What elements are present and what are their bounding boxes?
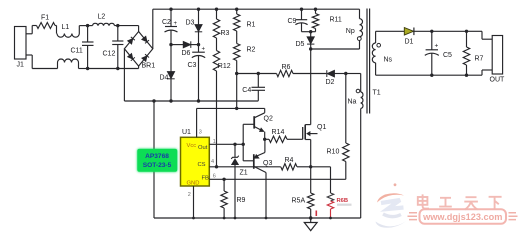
svg-text:L1: L1 bbox=[62, 24, 70, 31]
wire drain line bbox=[310, 49, 312, 125]
node C4 top bbox=[257, 72, 260, 75]
diode D3 bbox=[198, 9, 200, 24]
wire FB line bbox=[209, 178, 345, 180]
svg-text:4: 4 bbox=[211, 159, 214, 165]
node A junction bbox=[86, 24, 89, 27]
svg-text:R5A: R5A bbox=[292, 198, 306, 205]
svg-text:Vcc: Vcc bbox=[187, 143, 197, 149]
svg-text:Z1: Z1 bbox=[240, 170, 248, 177]
wire node A to L2 bbox=[88, 25, 93, 27]
node current sense bbox=[309, 165, 312, 168]
inductor L1 bottom winding bbox=[32, 68, 57, 70]
transformer auxiliary Na winding bbox=[360, 74, 362, 93]
ground symbol bbox=[310, 218, 312, 223]
resistor R4 bbox=[281, 164, 297, 170]
svg-text:R10: R10 bbox=[327, 149, 340, 156]
resistor R14 bbox=[265, 138, 269, 140]
node B junction bbox=[116, 24, 119, 27]
svg-text:C12: C12 bbox=[103, 51, 116, 58]
red mark bbox=[315, 211, 317, 217]
svg-text:J1: J1 bbox=[17, 62, 25, 69]
node top rail / R11 bbox=[314, 8, 317, 11]
resistor R12 bbox=[216, 38, 218, 51]
node CS/R12 bbox=[215, 165, 218, 168]
node D6/D3/C3 bbox=[197, 43, 200, 46]
transistor Q3 (PNP) bbox=[253, 154, 255, 169]
node C2/D6/D4 bbox=[169, 43, 172, 46]
node C3 ground bbox=[197, 99, 200, 102]
transistor Q2 (NPN) bbox=[253, 116, 255, 128]
svg-text:R4: R4 bbox=[285, 157, 294, 164]
wire F1 to L1 bbox=[55, 25, 57, 27]
inductor L1 top winding bbox=[57, 34, 79, 38]
node top rail / R1 bbox=[235, 8, 238, 11]
wire to OUT connector bottom bbox=[481, 70, 483, 75]
svg-text:BR1: BR1 bbox=[142, 63, 156, 70]
resistor R10 bbox=[345, 74, 347, 144]
capacitor C3 electrolytic bbox=[192, 51, 205, 53]
IC U1 AP3768 body bbox=[181, 137, 210, 186]
svg-text:D6: D6 bbox=[182, 50, 191, 57]
transistor Q1 (MOSFET) bbox=[305, 124, 311, 126]
resistor R6B (red) bbox=[327, 193, 333, 201]
green part label AP3768 SOT-23-5 bbox=[137, 149, 177, 172]
svg-text:T1: T1 bbox=[373, 90, 381, 97]
node D4 ground bbox=[169, 99, 172, 102]
transformer secondary Ns winding bbox=[375, 31, 377, 43]
svg-text:C11: C11 bbox=[71, 48, 83, 55]
node ground symbol junction bbox=[309, 216, 312, 219]
connector OUT bbox=[492, 36, 502, 75]
svg-text:C4: C4 bbox=[242, 87, 251, 94]
node top rail / D3 bbox=[197, 8, 200, 11]
inductor L2 bbox=[93, 23, 115, 25]
svg-text:+: + bbox=[174, 21, 178, 27]
fuse F1 bbox=[37, 23, 56, 29]
svg-text:R6: R6 bbox=[282, 64, 291, 71]
svg-text:D1: D1 bbox=[405, 39, 414, 46]
svg-text:R3: R3 bbox=[221, 30, 230, 37]
svg-text:2: 2 bbox=[188, 192, 191, 198]
svg-text:SOT-23-5: SOT-23-5 bbox=[143, 162, 172, 169]
diode D2 bbox=[327, 70, 335, 77]
capacitor C11 bbox=[87, 26, 89, 42]
svg-text:C2: C2 bbox=[162, 19, 171, 26]
svg-text:Np: Np bbox=[346, 28, 355, 35]
diode D1 (green) bbox=[404, 28, 413, 36]
resistor R5A bbox=[310, 167, 312, 193]
resistor R6 bbox=[277, 70, 294, 76]
tiny gray text under R6B bbox=[337, 204, 352, 206]
svg-text:C5: C5 bbox=[443, 52, 452, 59]
capacitor C4 bbox=[257, 74, 259, 88]
capacitor C9 bbox=[301, 9, 303, 20]
node R2/Vcc rail bbox=[235, 72, 238, 75]
svg-text:C3: C3 bbox=[188, 62, 197, 69]
resistor R3 bbox=[216, 9, 218, 19]
node C5 top bbox=[430, 30, 433, 33]
capacitor C12 bbox=[117, 26, 119, 41]
svg-text:U1: U1 bbox=[182, 129, 191, 136]
svg-text:OUT: OUT bbox=[490, 77, 506, 84]
wire AC bottom to bridge bottom bbox=[138, 66, 140, 68]
node top rail / R3 bbox=[215, 8, 218, 11]
node snubber/D5 bbox=[309, 30, 312, 33]
svg-text:D4: D4 bbox=[160, 75, 169, 82]
transformer primary Np winding bbox=[359, 9, 361, 19]
node B bottom junction bbox=[116, 67, 119, 70]
resistor R9 bbox=[223, 179, 225, 191]
svg-text:AP3768: AP3768 bbox=[145, 153, 169, 160]
diode D6 bbox=[183, 41, 191, 48]
wire L1 top to node A bbox=[78, 26, 80, 34]
ground rail (primary return) bbox=[124, 100, 258, 102]
wire GND pin to bottom rail bbox=[193, 186, 195, 218]
svg-text:+: + bbox=[202, 47, 206, 53]
svg-text:Q1: Q1 bbox=[317, 124, 326, 131]
svg-text:C9: C9 bbox=[288, 18, 297, 25]
svg-text:R1: R1 bbox=[247, 22, 256, 29]
capacitor C2 electrolytic bbox=[170, 9, 172, 26]
node Vcc link junction bbox=[235, 107, 238, 110]
svg-text:F1: F1 bbox=[41, 15, 49, 22]
wire bottom rail (signal ground) bbox=[154, 217, 361, 219]
watermark text dian gong tian xia bbox=[418, 194, 502, 209]
wire Vcc rail bbox=[237, 73, 277, 75]
node C5 bottom bbox=[430, 74, 433, 77]
wire AC top to bridge top bbox=[138, 26, 140, 32]
diode D5 bbox=[310, 32, 312, 37]
svg-text:R11: R11 bbox=[330, 17, 342, 24]
svg-text:GND: GND bbox=[187, 180, 200, 186]
svg-text:D5: D5 bbox=[296, 41, 305, 48]
watermark logo swirl bbox=[376, 183, 407, 227]
svg-text:FB: FB bbox=[202, 176, 210, 182]
node D5 / primary bottom bbox=[309, 47, 312, 50]
wire Vcc link to Q2 collector bbox=[237, 107, 265, 109]
node Out/Z1 bbox=[233, 143, 236, 146]
node Out/base line bbox=[242, 143, 245, 146]
svg-text:CS: CS bbox=[198, 162, 206, 168]
wire secondary top rail bbox=[376, 30, 405, 32]
svg-text:R2: R2 bbox=[247, 47, 256, 54]
node FB/R9 bbox=[222, 178, 225, 181]
wire R12 to CS pin bbox=[216, 71, 218, 167]
svg-text:L2: L2 bbox=[98, 14, 106, 21]
svg-text:R14: R14 bbox=[272, 129, 285, 136]
wire ground rail to bottom rail link bbox=[152, 99, 155, 102]
svg-text:Ns: Ns bbox=[384, 57, 393, 64]
node top rail / C9 bbox=[300, 8, 303, 11]
wire base line bbox=[242, 124, 244, 161]
resistor R2 bbox=[236, 31, 238, 44]
bridge rectifier BR1 bbox=[124, 32, 152, 67]
svg-text:R9: R9 bbox=[237, 197, 246, 204]
node D2/R10/Na bbox=[344, 72, 347, 75]
wire to OUT connector top bbox=[481, 31, 483, 39]
capacitor C5 electrolytic bbox=[431, 31, 433, 50]
wire top rail (DC bus +) bbox=[153, 8, 360, 10]
resistor R11 bbox=[315, 9, 317, 13]
resistor R1 bbox=[236, 9, 238, 14]
watermark side marks bbox=[408, 213, 518, 220]
svg-text:6: 6 bbox=[213, 174, 216, 180]
zener diode Z1 bbox=[234, 144, 236, 157]
transformer core bbox=[366, 9, 368, 114]
node A bottom junction bbox=[86, 67, 89, 70]
svg-text:R6B: R6B bbox=[337, 198, 349, 204]
svg-text:www.dgjs123.com: www.dgjs123.com bbox=[422, 212, 502, 222]
svg-text:3: 3 bbox=[199, 130, 202, 136]
wire bridge right corner to top rail bbox=[152, 9, 154, 49]
svg-text:Q3: Q3 bbox=[263, 160, 272, 167]
svg-text:D2: D2 bbox=[326, 79, 335, 86]
resistor R7 bbox=[466, 31, 468, 47]
svg-text:Na: Na bbox=[348, 99, 357, 106]
node R7 top bbox=[465, 30, 468, 33]
connector J1 bbox=[15, 27, 27, 60]
node driver output bbox=[263, 138, 266, 141]
wire CS line bbox=[209, 166, 280, 168]
watermark url box bbox=[420, 209, 507, 224]
wire bridge left corner to ground rail bbox=[123, 49, 125, 101]
svg-text:Q2: Q2 bbox=[264, 116, 273, 123]
wire Vcc pin to Vcc link bbox=[196, 108, 198, 137]
svg-text:R12: R12 bbox=[218, 63, 231, 70]
wire R6 to D2 bbox=[293, 73, 326, 75]
svg-text:+: + bbox=[435, 43, 439, 50]
wire R2 to Vcc rail bbox=[236, 61, 238, 74]
svg-text:Out: Out bbox=[198, 145, 208, 151]
wire secondary bottom rail bbox=[376, 74, 482, 76]
diode D4 bbox=[170, 45, 172, 72]
node top rail / C2 bbox=[169, 8, 172, 11]
wire Out pin line bbox=[209, 143, 243, 145]
wire Vcc rail down to Vcc link bbox=[236, 74, 238, 109]
wire snubber join bbox=[302, 31, 316, 33]
node R7 bottom bbox=[465, 74, 468, 77]
wire sense node to R6B bbox=[311, 166, 331, 168]
svg-text:R7: R7 bbox=[475, 56, 484, 63]
svg-text:D3: D3 bbox=[186, 20, 195, 27]
